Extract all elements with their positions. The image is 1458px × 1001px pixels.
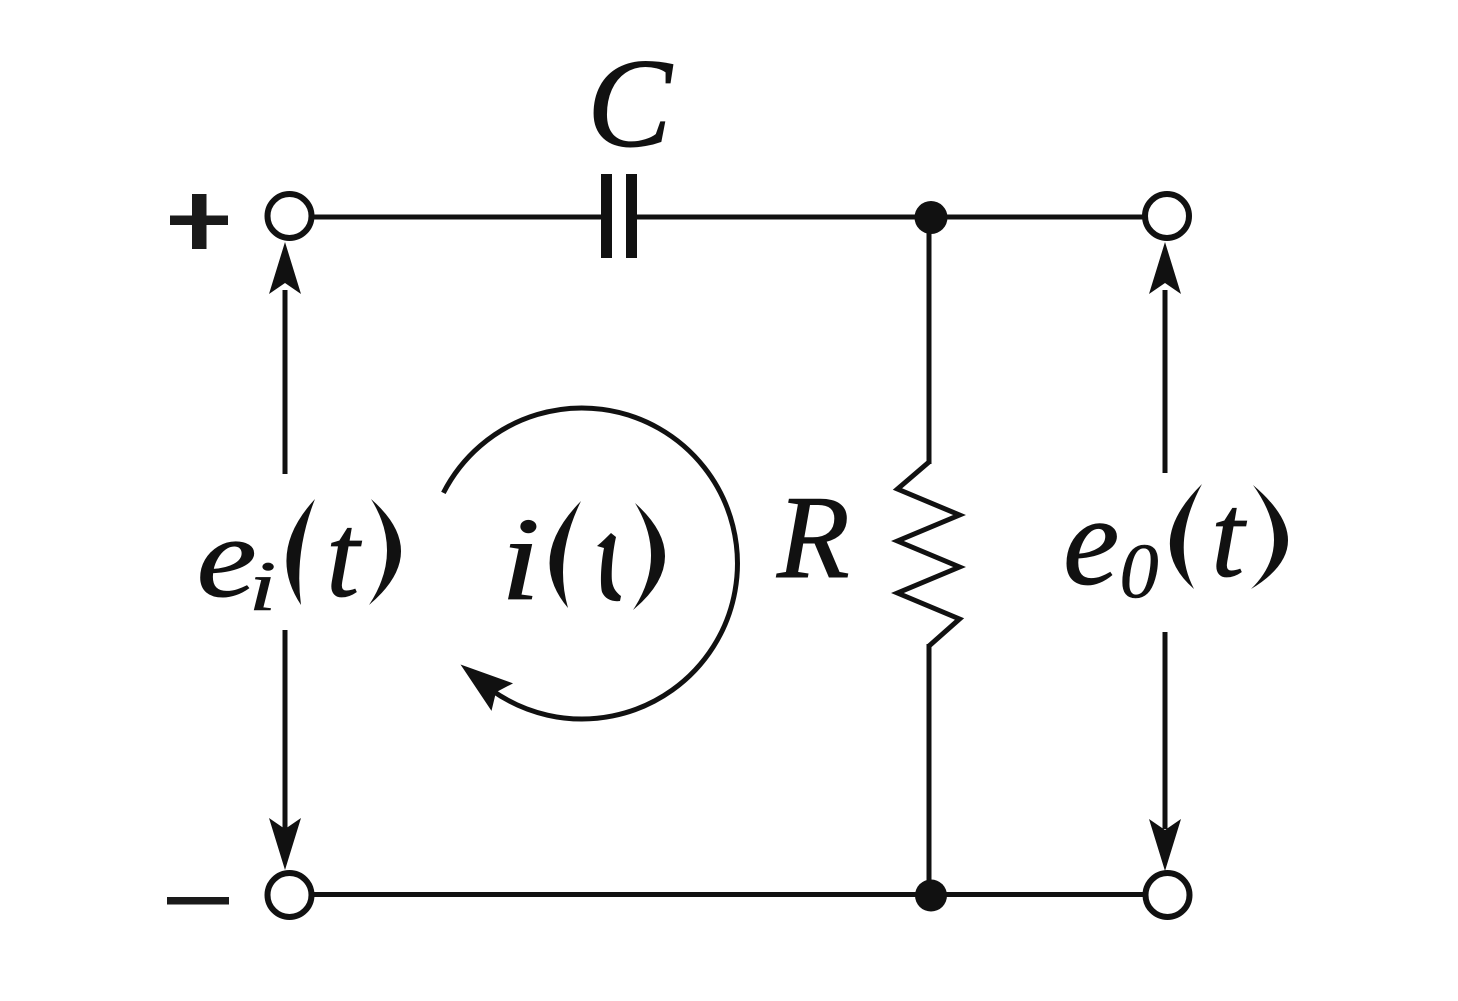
label e_0(t) — [1063, 469, 1288, 614]
wire: bottom-left terminal to bottom node — [312, 892, 931, 897]
wire: top-left terminal to capacitor — [311, 215, 601, 220]
svg-text:t: t — [1211, 469, 1247, 602]
arrow: e_i down arrow (shaft) — [283, 630, 288, 829]
svg-text:e: e — [197, 495, 257, 622]
arrow: e_i up arrowhead — [269, 242, 301, 294]
arrow: e_i down arrowhead — [269, 818, 301, 870]
svg-text:t: t — [326, 489, 362, 622]
wire: capacitor to top node — [637, 215, 931, 220]
svg-text:0: 0 — [1120, 527, 1159, 614]
wire: top node down to resistor top — [927, 217, 932, 464]
terminal top-right (open circle) — [1145, 194, 1189, 238]
arrow: e_0 down arrow (shaft) — [1163, 632, 1168, 829]
capacitor C (two plates) — [601, 174, 637, 258]
arrow: e_0 up arrow (shaft) — [1163, 290, 1168, 473]
svg-text:R: R — [776, 471, 850, 603]
arrow: e_i up arrow (shaft) — [283, 290, 288, 474]
resistor R (zigzag) — [898, 462, 960, 646]
svg-text:i: i — [501, 494, 541, 625]
arrow: e_0 up arrowhead — [1149, 242, 1181, 294]
plus sign (input polarity +) — [170, 194, 228, 249]
svg-text:C: C — [587, 34, 673, 174]
loop current arrow i(t) (arc) — [443, 408, 737, 719]
node: bottom junction (filled dot) — [915, 880, 947, 912]
wire: bottom node to bottom-right terminal — [931, 892, 1146, 897]
label e_i(t) — [197, 489, 402, 626]
loop current arrowhead — [450, 651, 513, 711]
svg-text:e: e — [1063, 472, 1119, 612]
terminal bottom-left (open circle) — [268, 873, 312, 917]
minus sign (input polarity -) — [167, 897, 229, 905]
node: top junction (filled dot) — [915, 201, 948, 234]
wire: resistor bottom to bottom node — [927, 644, 932, 895]
arrow: e_0 down arrowhead — [1149, 819, 1181, 871]
terminal bottom-right (open circle) — [1146, 873, 1190, 917]
label i(t) — [501, 494, 665, 625]
svg-text:i: i — [249, 547, 277, 626]
wire: top node to top-right terminal — [931, 215, 1145, 220]
terminal top-left (open circle) — [268, 194, 312, 238]
